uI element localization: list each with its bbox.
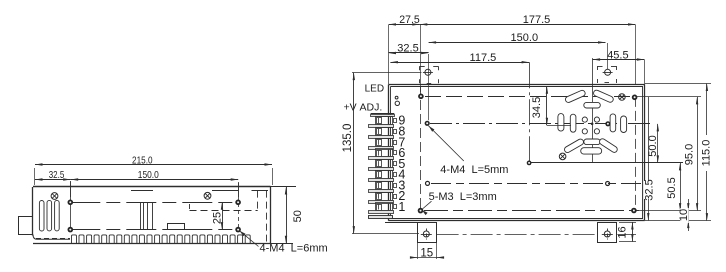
svg-text:10: 10 [678, 209, 690, 221]
svg-text:32.5: 32.5 [397, 43, 418, 55]
svg-text:135.0: 135.0 [342, 124, 354, 153]
svg-text:LED: LED [365, 83, 384, 94]
svg-text:15: 15 [420, 247, 433, 259]
svg-text:50.5: 50.5 [666, 177, 678, 198]
svg-text:4-M4 L=5mm: 4-M4 L=5mm [440, 164, 508, 176]
svg-text:117.5: 117.5 [470, 52, 497, 64]
svg-text:215.0: 215.0 [132, 154, 153, 166]
svg-text:95.0: 95.0 [684, 144, 696, 165]
svg-text:16: 16 [617, 226, 629, 238]
svg-text:5-M3 L=3mm: 5-M3 L=3mm [429, 191, 497, 203]
svg-text:1: 1 [398, 200, 405, 214]
svg-text:32.5: 32.5 [49, 169, 65, 181]
svg-text:34.5: 34.5 [531, 97, 543, 118]
svg-text:25: 25 [211, 212, 223, 224]
svg-text:4-M4 L=6mm: 4-M4 L=6mm [260, 243, 328, 255]
svg-text:150.0: 150.0 [138, 169, 159, 181]
svg-text:45.5: 45.5 [607, 49, 628, 61]
svg-text:+V ADJ.: +V ADJ. [344, 102, 383, 114]
svg-text:50.0: 50.0 [647, 135, 659, 156]
svg-text:32.5: 32.5 [643, 179, 655, 200]
svg-text:115.0: 115.0 [701, 140, 713, 167]
svg-text:50: 50 [292, 210, 304, 222]
svg-text:177.5: 177.5 [523, 14, 551, 26]
svg-text:27.5: 27.5 [399, 14, 420, 26]
svg-text:150.0: 150.0 [511, 32, 539, 44]
